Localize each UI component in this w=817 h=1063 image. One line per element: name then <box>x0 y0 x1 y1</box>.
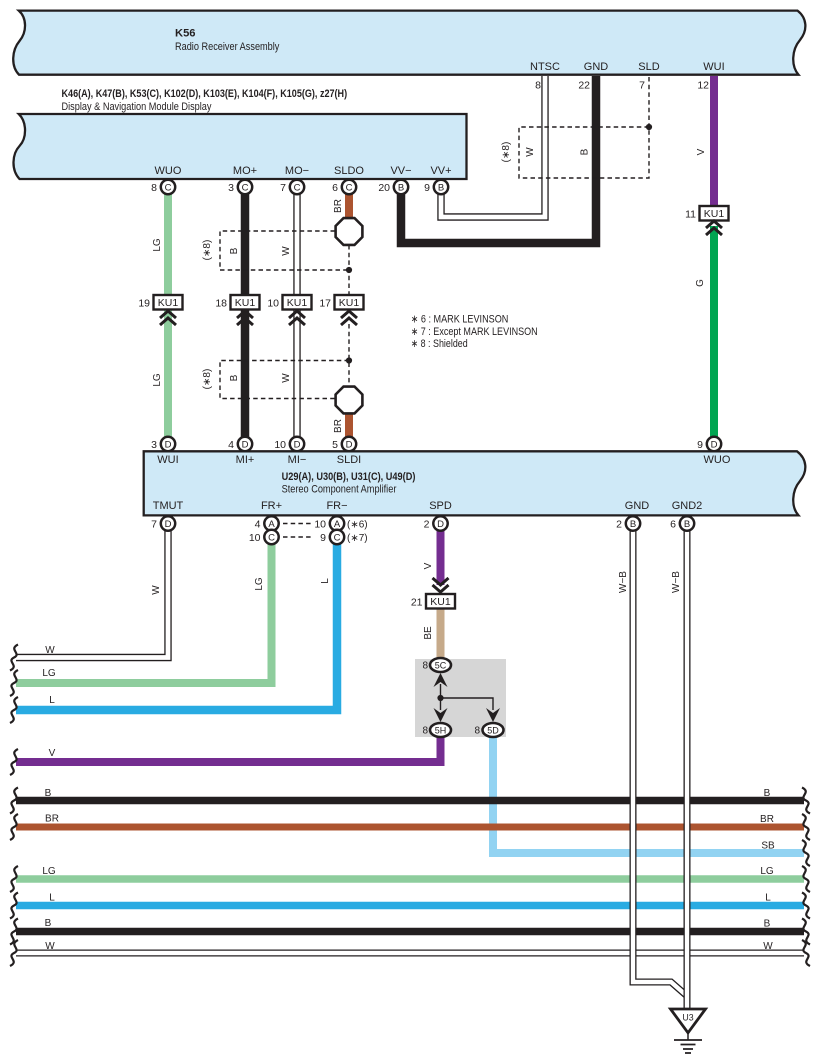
label display header <box>62 88 348 113</box>
svg-text:WUI: WUI <box>703 61 724 73</box>
label K56 title <box>175 28 280 54</box>
svg-text:L: L <box>765 893 771 904</box>
svg-text:5D: 5D <box>487 725 499 735</box>
junction arrow into 5H <box>434 708 448 722</box>
svg-text:C: C <box>334 532 341 543</box>
bus labels right <box>760 788 775 952</box>
svg-text:5C: 5C <box>435 660 447 670</box>
svg-text:10: 10 <box>314 518 326 530</box>
pin 9 B VV+ <box>424 180 448 194</box>
junction 5H <box>422 723 451 737</box>
junction 5C <box>422 658 451 672</box>
svg-text:GND: GND <box>625 500 650 512</box>
svg-text:20: 20 <box>378 182 390 194</box>
label W-B gnd <box>618 571 629 593</box>
svg-text:10: 10 <box>274 439 286 451</box>
svg-text:A: A <box>334 519 341 530</box>
svg-text:(∗8): (∗8) <box>202 240 213 261</box>
wire L FR- <box>16 543 337 710</box>
wire W-B GND <box>633 530 687 996</box>
wire LG FR+ <box>16 543 272 683</box>
svg-text:B: B <box>229 374 240 381</box>
svg-text:LG: LG <box>42 668 56 679</box>
svg-text:12: 12 <box>697 80 709 92</box>
label (*8) lower <box>202 369 213 390</box>
junction dot shield mid <box>346 357 352 363</box>
pin 20 B VV- <box>378 180 408 194</box>
svg-text:W: W <box>151 585 162 595</box>
svg-text:8: 8 <box>151 182 157 194</box>
bus wire LG <box>16 875 804 883</box>
wire B VV- to GND <box>401 76 596 243</box>
wire B MO+ to MI+ <box>241 193 250 437</box>
svg-text:B: B <box>764 788 771 799</box>
wire W-B GND2 <box>684 530 691 1008</box>
svg-text:KU1: KU1 <box>430 596 451 608</box>
wire LG WUO to WUI <box>164 193 172 437</box>
junction dot SLD <box>646 124 652 130</box>
svg-text:V: V <box>423 562 434 569</box>
label amp bottom ports <box>153 500 703 512</box>
label B gnd <box>580 148 591 155</box>
connector KU1 18 <box>215 295 259 325</box>
shield octagon upper <box>336 218 363 245</box>
label W ntsc <box>525 147 536 157</box>
svg-text:V: V <box>696 148 707 155</box>
svg-text:GND2: GND2 <box>672 500 703 512</box>
svg-text:7: 7 <box>639 80 645 92</box>
svg-text:W: W <box>525 147 536 157</box>
svg-text:W: W <box>763 941 773 952</box>
svg-text:FR−: FR− <box>326 500 347 512</box>
bus wire B lower <box>16 928 804 936</box>
svg-text:∗ 8 : Shielded: ∗ 8 : Shielded <box>411 338 468 350</box>
svg-text:W: W <box>45 645 55 656</box>
label K56 pin numbers <box>535 80 709 92</box>
svg-text:(∗8): (∗8) <box>202 369 213 390</box>
wire shield drain dashed mid <box>348 324 350 386</box>
svg-text:10: 10 <box>249 532 261 544</box>
wire W TMUT <box>16 530 168 658</box>
label W upper <box>281 246 292 256</box>
svg-text:BE: BE <box>423 626 434 640</box>
label BR upper <box>333 199 344 213</box>
svg-text:D: D <box>711 439 718 450</box>
svg-text:B: B <box>764 919 771 930</box>
svg-text:B: B <box>630 519 636 530</box>
svg-text:(∗8): (∗8) <box>501 142 512 163</box>
torn wire ends <box>10 645 810 967</box>
svg-text:D: D <box>165 439 172 450</box>
wire SLD dashed <box>648 77 650 127</box>
pin 7 D TMUT <box>151 516 175 530</box>
wire BE KU1-21 to 5C <box>437 608 445 660</box>
svg-text:9: 9 <box>697 439 703 451</box>
svg-text:7: 7 <box>280 182 286 194</box>
svg-text:VV−: VV− <box>390 165 411 177</box>
label LG fr+ <box>254 577 265 591</box>
svg-text:NTSC: NTSC <box>530 61 560 73</box>
label L fr- <box>320 578 331 584</box>
svg-text:W−B: W−B <box>618 571 629 593</box>
svg-text:SLDI: SLDI <box>337 454 361 466</box>
pin 6 C SLDO <box>332 180 356 194</box>
svg-text:2: 2 <box>424 518 430 530</box>
connector KU1 21 <box>411 578 455 609</box>
box K56 Radio Receiver Assembly <box>13 11 805 75</box>
svg-text:C: C <box>346 182 353 193</box>
label LG lower <box>152 373 163 387</box>
svg-text:W: W <box>281 246 292 256</box>
svg-text:K56: K56 <box>175 28 196 40</box>
svg-text:SLDO: SLDO <box>334 165 364 177</box>
wire V WUI to KU1-11 <box>710 76 718 206</box>
pin link dashed row1 <box>283 523 312 525</box>
label BR lower <box>333 419 344 433</box>
svg-text:D: D <box>346 439 353 450</box>
label B lower <box>229 374 240 381</box>
pin 9 C FR- row2 <box>320 530 367 544</box>
svg-text:C: C <box>242 182 249 193</box>
junction block gray box <box>415 659 506 737</box>
label amp top ports <box>157 454 731 466</box>
svg-text:L: L <box>49 893 55 904</box>
svg-text:B: B <box>45 788 52 799</box>
svg-text:W: W <box>281 373 292 383</box>
pin 2 B GND <box>616 516 640 530</box>
shield dashed box lower <box>220 361 349 399</box>
svg-text:KU1: KU1 <box>158 297 179 309</box>
svg-text:KU1: KU1 <box>287 297 308 309</box>
svg-text:KU1: KU1 <box>339 297 360 309</box>
connector KU1 10 <box>267 295 311 325</box>
ground stem <box>687 1033 689 1040</box>
svg-text:W−B: W−B <box>671 571 682 593</box>
pin 6 B GND2 <box>670 516 694 530</box>
svg-text:WUO: WUO <box>704 454 731 466</box>
svg-text:V: V <box>49 748 56 759</box>
svg-text:17: 17 <box>319 297 331 309</box>
svg-text:6: 6 <box>670 518 676 530</box>
label B upper <box>229 247 240 254</box>
svg-text:SPD: SPD <box>429 500 452 512</box>
svg-text:18: 18 <box>215 297 227 309</box>
svg-text:11: 11 <box>685 208 696 220</box>
svg-text:D: D <box>165 519 172 530</box>
wire W VV+ to NTSC <box>441 76 545 217</box>
wire V SPD to KU1-21 <box>437 530 445 585</box>
svg-text:B: B <box>45 918 52 929</box>
label LG upper <box>152 238 163 252</box>
svg-text:LG: LG <box>42 866 56 877</box>
junction dot 5C <box>437 695 443 701</box>
wire W MO- to MI- <box>293 193 300 437</box>
svg-text:MO+: MO+ <box>233 165 257 177</box>
svg-text:KU1: KU1 <box>235 297 256 309</box>
label V spd <box>423 562 434 569</box>
svg-text:8: 8 <box>422 661 428 672</box>
svg-text:B: B <box>438 182 444 193</box>
svg-text:2: 2 <box>616 518 622 530</box>
junction 5D <box>474 723 503 737</box>
svg-text:B: B <box>398 182 404 193</box>
svg-text:C: C <box>294 182 301 193</box>
pin 4 A FR+ <box>255 516 279 530</box>
note mark levinson <box>411 313 538 350</box>
label W-B gnd2 <box>671 571 682 593</box>
svg-text:9: 9 <box>320 532 326 544</box>
pin 7 C MO- <box>280 180 304 194</box>
svg-text:G: G <box>695 279 706 287</box>
svg-text:U29(A), U30(B), U31(C), U49(D): U29(A), U30(B), U31(C), U49(D) <box>282 471 416 483</box>
svg-text:W: W <box>45 941 55 952</box>
svg-text:LG: LG <box>254 577 265 591</box>
svg-text:Stereo Component Amplifier: Stereo Component Amplifier <box>282 483 397 495</box>
svg-text:L: L <box>49 695 55 706</box>
wire shield drain dashed upper <box>348 245 350 295</box>
bus wire BR <box>16 824 804 831</box>
svg-text:K46(A), K47(B), K53(C), K102(D: K46(A), K47(B), K53(C), K102(D), K103(E)… <box>62 88 348 100</box>
svg-text:∗ 6 : MARK LEVINSON: ∗ 6 : MARK LEVINSON <box>411 313 509 325</box>
svg-text:KU1: KU1 <box>704 208 725 220</box>
svg-text:4: 4 <box>255 518 261 530</box>
svg-text:BR: BR <box>333 199 344 213</box>
bus wire W <box>16 950 804 957</box>
svg-text:U3: U3 <box>682 1013 693 1023</box>
svg-text:Radio Receiver Assembly: Radio Receiver Assembly <box>175 41 280 53</box>
svg-text:3: 3 <box>151 439 157 451</box>
svg-text:VV+: VV+ <box>430 165 451 177</box>
bus wire L <box>16 902 804 910</box>
svg-text:BR: BR <box>760 814 774 825</box>
svg-text:8: 8 <box>474 726 480 737</box>
wire BR shield to SLDI <box>345 414 353 437</box>
svg-text:B: B <box>684 519 690 530</box>
junction link line <box>441 698 494 710</box>
bus labels left <box>42 645 59 952</box>
svg-text:4: 4 <box>228 439 234 451</box>
svg-text:10: 10 <box>267 297 279 309</box>
wire V 5H to left <box>16 737 441 762</box>
svg-text:D: D <box>294 439 301 450</box>
svg-text:Display & Navigation Module Di: Display & Navigation Module Display <box>62 101 212 113</box>
bus wire B upper <box>16 797 804 805</box>
wire G KU1-11 to WUO <box>710 226 718 437</box>
svg-text:BR: BR <box>333 419 344 433</box>
svg-text:19: 19 <box>138 297 150 309</box>
svg-text:MI−: MI− <box>288 454 307 466</box>
box Stereo Component Amplifier <box>144 451 806 515</box>
label display ports <box>155 165 452 177</box>
svg-text:TMUT: TMUT <box>153 500 184 512</box>
pin 8 C WUO <box>151 180 175 194</box>
svg-text:LG: LG <box>152 238 163 252</box>
pin link dashed row2 <box>283 536 312 538</box>
svg-text:BR: BR <box>45 814 59 825</box>
pin 9 D WUO <box>697 437 721 451</box>
svg-text:B: B <box>229 247 240 254</box>
svg-text:FR+: FR+ <box>261 500 282 512</box>
svg-text:5H: 5H <box>435 725 447 735</box>
junction arrow into 5D <box>486 708 500 722</box>
svg-text:LG: LG <box>760 866 774 877</box>
label (*8) right <box>501 142 512 163</box>
svg-text:L: L <box>320 578 331 584</box>
svg-text:MO−: MO− <box>285 165 309 177</box>
svg-text:∗ 7 : Except MARK LEVINSON: ∗ 7 : Except MARK LEVINSON <box>411 326 538 338</box>
pin 10 A FR+ alt <box>314 516 367 530</box>
connector KU1 19 <box>138 295 182 325</box>
svg-text:C: C <box>165 182 172 193</box>
svg-text:SLD: SLD <box>638 61 659 73</box>
junction dot shield upper <box>346 267 352 273</box>
svg-text:GND: GND <box>584 61 609 73</box>
svg-text:5: 5 <box>332 439 338 451</box>
pin 5 D SLDI <box>332 437 356 451</box>
svg-text:22: 22 <box>578 80 590 92</box>
label K56 ports <box>530 61 725 73</box>
svg-text:21: 21 <box>411 596 423 608</box>
svg-text:WUO: WUO <box>155 165 182 177</box>
label V wui <box>696 148 707 155</box>
svg-text:8: 8 <box>422 726 428 737</box>
svg-text:8: 8 <box>535 80 541 92</box>
svg-text:C: C <box>268 532 275 543</box>
svg-text:(∗6): (∗6) <box>347 520 368 531</box>
svg-text:MI+: MI+ <box>236 454 255 466</box>
svg-text:6: 6 <box>332 182 338 194</box>
svg-text:SB: SB <box>761 841 775 852</box>
shield dashed box right <box>519 127 649 178</box>
pin 4 D MI+ <box>228 437 252 451</box>
svg-text:3: 3 <box>228 182 234 194</box>
svg-text:(∗7): (∗7) <box>347 533 368 544</box>
pin 3 C MO+ <box>228 180 252 194</box>
label BE <box>423 626 434 640</box>
connector KU1 17 <box>319 295 363 325</box>
svg-text:9: 9 <box>424 182 430 194</box>
svg-text:D: D <box>242 439 249 450</box>
shield dashed box upper <box>220 231 349 270</box>
wire BR SLDO to shield <box>345 193 353 218</box>
pin 2 D SPD <box>424 516 448 530</box>
label G wui <box>695 279 706 287</box>
label W tmut <box>151 585 162 595</box>
pin 10 C FR+ row2 <box>249 530 279 544</box>
box Display Navigation Module <box>13 114 466 179</box>
ground earth lines <box>674 1040 702 1053</box>
label W lower <box>281 373 292 383</box>
ground triangle U3 <box>671 1009 706 1033</box>
shield octagon lower <box>336 387 363 414</box>
svg-text:B: B <box>580 148 591 155</box>
label amp title <box>282 471 416 495</box>
junction arrow into 5C <box>434 673 448 698</box>
svg-text:WUI: WUI <box>157 454 178 466</box>
svg-text:D: D <box>437 519 444 530</box>
svg-text:LG: LG <box>152 373 163 387</box>
pin 10 D MI- <box>274 437 304 451</box>
connector KU1 11 <box>685 206 728 235</box>
svg-text:7: 7 <box>151 518 157 530</box>
pin 3 D WUI <box>151 437 175 451</box>
svg-text:A: A <box>268 519 275 530</box>
wire SB 5D to right <box>493 737 804 853</box>
label (*8) upper <box>202 240 213 261</box>
